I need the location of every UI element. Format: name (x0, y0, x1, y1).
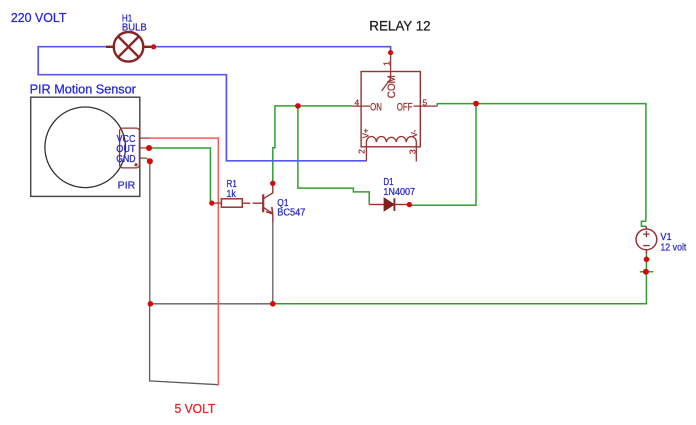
node: Q1 collector junction (270, 181, 275, 186)
PIR pin stub OUT (140, 147, 150, 149)
svg-text:1k: 1k (227, 189, 237, 200)
svg-text:GND: GND (116, 154, 135, 165)
wire: dark red R1 right lead to Q1 base (with gap) (242, 202, 262, 204)
svg-text:12 volt: 12 volt (660, 242, 686, 253)
voltage source V1 (636, 226, 657, 253)
svg-text:V-: V- (410, 130, 419, 138)
wire: blue 220V left lead to bulb (38, 47, 366, 161)
node: relay ON branch junction (295, 103, 301, 109)
wire: green tip at GND pin (146, 158, 150, 160)
PIR connector mark dot (134, 163, 137, 166)
resistor R1 (221, 199, 242, 207)
PIR connector (120, 128, 140, 168)
wire: green collector to relay pin4 ON (273, 106, 352, 183)
PIR lens circle (45, 107, 126, 188)
svg-text:V+: V+ (362, 128, 371, 138)
svg-text:PIR Motion Sensor: PIR Motion Sensor (30, 82, 137, 97)
svg-text:COM: COM (386, 75, 398, 98)
relay pin 4 line (352, 105, 370, 107)
wire: dark red R1 left lead (212, 202, 222, 204)
wire: green stub at relay pin1 (390, 53, 392, 58)
node: below V1 lower (643, 269, 649, 275)
svg-text:5 VOLT: 5 VOLT (175, 401, 216, 416)
Q1 emitter arrowhead (266, 207, 273, 214)
svg-text:1N4007: 1N4007 (383, 187, 415, 198)
svg-text:2: 2 (356, 149, 366, 154)
svg-text:5: 5 (423, 98, 428, 108)
wire: grey down-left to 5 VOLT supply (150, 304, 219, 385)
svg-text:4: 4 (355, 99, 360, 108)
relay pin 2 stub (365, 142, 367, 161)
relay pin 5 line (414, 105, 438, 107)
node: PIR GND pin (147, 158, 153, 164)
wire: red 5V to PIR VCC (150, 138, 218, 386)
svg-text:ON: ON (370, 102, 382, 114)
relay coil (366, 137, 416, 143)
PIR sensor box (31, 97, 140, 196)
relay pin 3 stub (415, 142, 417, 161)
wire: green branch from ON junction to diode anode (298, 106, 369, 205)
node: below V1 upper (644, 257, 650, 263)
node: relay pin1 top (388, 50, 393, 55)
node: PIR OUT pin (146, 145, 152, 151)
svg-text:BULB: BULB (122, 23, 147, 34)
node: diode cathode junction (407, 202, 412, 207)
wire: green pin5 junction right to V1 top (476, 104, 646, 227)
node: bottom-left junction (148, 301, 154, 307)
transistor Q1 (263, 185, 273, 222)
bulb H1 (106, 32, 151, 62)
relay box (361, 72, 420, 147)
wire: grey bottom rail (150, 303, 273, 305)
svg-text:BC547: BC547 (277, 208, 305, 219)
PIR pin stub VCC (140, 137, 150, 139)
svg-text:RELAY 12: RELAY 12 (369, 18, 430, 34)
node: R1 left junction (209, 201, 214, 206)
svg-text:OFF: OFF (397, 102, 413, 114)
relay pin 1 COM stub (390, 57, 392, 78)
wire: blue bulb right lead to relay pin1 COM (154, 47, 391, 52)
relay switch arm (382, 78, 392, 91)
PIR pin stub GND (140, 157, 147, 159)
diode D1 (369, 204, 384, 206)
wire: grey GND from PIR down to bottom rail (149, 161, 151, 304)
svg-text:PIR: PIR (118, 180, 136, 191)
node: bulb right terminal (151, 44, 156, 49)
node: pin5 corner junction (473, 101, 479, 107)
wire: green diode cathode to relay pin5 OFF (409, 104, 476, 206)
svg-text:220 VOLT: 220 VOLT (11, 10, 67, 25)
wire: grey Q1 emitter to bottom rail (272, 222, 274, 304)
wire: green V1 bottom to emitter bottom rail (273, 253, 653, 304)
svg-text:3: 3 (408, 149, 418, 154)
svg-text:1: 1 (381, 61, 391, 66)
wire: green OUT pin to R1 junction (149, 148, 210, 203)
svg-text:V1: V1 (660, 232, 672, 243)
node: emitter bottom junction (270, 301, 276, 307)
